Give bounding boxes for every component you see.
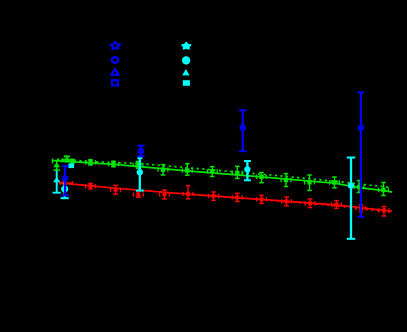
red data point 12 (332, 201, 342, 209)
green data point 9 (257, 173, 267, 183)
green data point 8 (232, 166, 242, 178)
green data point 14 (379, 183, 389, 196)
blue open circle point 3 (240, 125, 245, 130)
green left end tick (52, 159, 53, 164)
cyan filled circle point 3 (244, 161, 251, 180)
blue open circle point 1 (63, 176, 68, 181)
red solid line (59, 183, 392, 211)
legend cyan filled triangle (182, 69, 189, 75)
red data point 11 (305, 199, 315, 208)
blue open circle point 2 (139, 149, 144, 154)
blue error bar 4 (357, 92, 364, 216)
blue open circle point 4 (359, 125, 364, 130)
red data point 13 (356, 205, 366, 212)
red data point 5 (160, 190, 170, 199)
red data point 4 (133, 192, 143, 198)
blue error bar 1 (62, 166, 69, 195)
green data point 12 (330, 177, 340, 188)
red data point 14 (379, 207, 389, 216)
green point1 top cap (64, 156, 70, 160)
red data point 7 (209, 192, 219, 200)
green data point 6 (182, 164, 192, 176)
cyan filled circle point 4 (347, 158, 355, 239)
legend blue open triangle (111, 69, 119, 75)
legend blue open star (111, 42, 120, 49)
legend cyan filled star (182, 42, 191, 49)
green data point 2 (86, 160, 96, 165)
cyan triangle point (53, 171, 61, 193)
blue error bar 3 (239, 110, 247, 151)
green triangle point (53, 162, 60, 167)
green solid line (52, 161, 392, 193)
green data point 3 (109, 161, 119, 167)
red data point 3 (111, 185, 121, 194)
green data point 4 (133, 162, 143, 169)
legend blue open circle (112, 57, 118, 63)
red data point 1 (63, 181, 67, 185)
legend cyan filled circle (182, 56, 190, 64)
red data point 6 (183, 186, 193, 199)
cyan filled circle point 1 (61, 182, 69, 198)
green data point 1 (62, 158, 72, 162)
green data point 13 (354, 181, 364, 193)
green extra square marker (70, 159, 75, 164)
red point1 x error bar (60, 181, 74, 185)
green data point 11 (305, 175, 315, 190)
red data point 9 (257, 195, 267, 203)
blue error bar 2 (137, 146, 144, 157)
red data point 8 (232, 193, 242, 201)
green data point 10 (281, 174, 291, 187)
legend cyan filled square (183, 80, 190, 86)
legend blue open square (112, 80, 118, 85)
red dotted fit line (59, 183, 392, 213)
cyan extra square marker (68, 164, 74, 169)
green dotted fit line (57, 159, 389, 187)
cyan filled circle point 2 (136, 158, 144, 191)
red data point 2 (86, 183, 96, 189)
green data point 5 (158, 165, 168, 175)
green triangle error bar (54, 161, 60, 170)
green data point 7 (207, 167, 217, 177)
red data point 10 (282, 197, 292, 206)
